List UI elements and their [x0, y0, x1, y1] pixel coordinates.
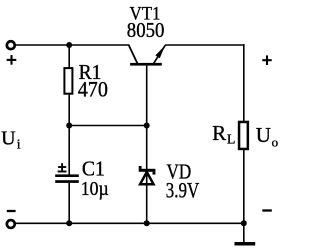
wire base-zener branch	[146, 66, 148, 224]
resistor RL	[239, 122, 248, 149]
node junction middle-left	[66, 123, 72, 129]
wire middle horizontal	[69, 125, 147, 127]
zener diode VD	[139, 166, 156, 184]
transistor VT1	[129, 45, 166, 66]
node junction bottom-right	[241, 220, 247, 226]
resistor R1	[64, 68, 72, 94]
terminal input -	[7, 220, 15, 228]
wire right rail lower	[243, 150, 245, 224]
minus sign left	[7, 210, 16, 212]
plus sign left	[7, 55, 17, 65]
node junction bottom-left	[66, 220, 72, 226]
wire right rail upper	[243, 44, 245, 121]
svg-text:470: 470	[78, 76, 108, 101]
svg-text:C1: C1	[82, 156, 105, 180]
node junction top (R1/input rail)	[66, 42, 72, 48]
node junction middle-right	[144, 123, 150, 129]
plus sign right	[262, 55, 271, 65]
wire top-left rail	[15, 44, 130, 46]
capacitor C1	[55, 174, 79, 177]
minus sign right	[262, 209, 272, 211]
terminal input +	[7, 41, 15, 49]
wire left branch C1 bottom	[68, 183, 70, 224]
wire left branch R1 bottom to C1	[68, 94, 70, 175]
wire top-right rail	[165, 44, 245, 46]
node junction bottom-middle	[144, 220, 150, 226]
svg-text:10µ: 10µ	[81, 178, 109, 200]
svg-text:3.9V: 3.9V	[166, 177, 199, 202]
ground	[243, 223, 245, 243]
svg-text:8050: 8050	[127, 18, 165, 42]
wire left branch R1 top	[68, 45, 70, 68]
wire bottom rail	[15, 222, 244, 224]
